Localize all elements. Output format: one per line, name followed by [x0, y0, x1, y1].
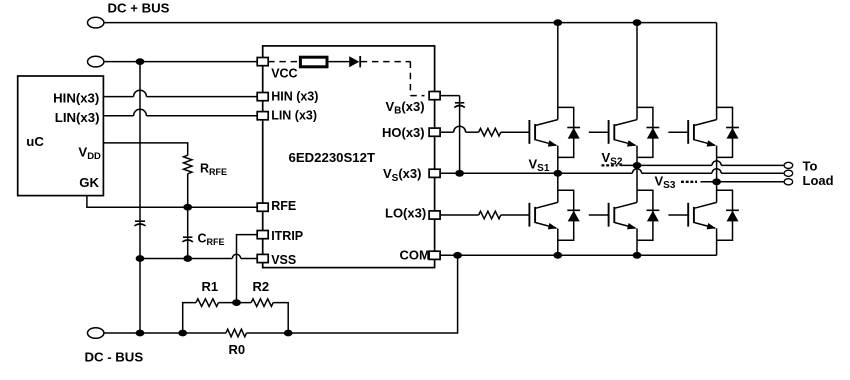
pin HO	[429, 128, 440, 136]
label VSS pin	[271, 253, 296, 267]
svg-text:COM: COM	[400, 247, 430, 262]
label RRFE	[200, 162, 227, 178]
wire HIN uC to IC	[103, 96, 257, 98]
label DC + BUS	[108, 1, 170, 16]
label COM pin	[400, 247, 430, 262]
resistor HO gate	[479, 128, 501, 136]
wire VS3 line	[701, 181, 785, 183]
resistor R2	[251, 299, 273, 307]
diode bootstrap	[349, 56, 360, 67]
gate driver IC 6ED2230S12T block	[263, 46, 435, 268]
terminal load phase2	[784, 162, 793, 168]
wire VSS	[140, 258, 257, 260]
label R0	[229, 342, 246, 357]
wire COM rail	[440, 254, 716, 256]
wire diode dashed to VB corner	[361, 61, 411, 63]
svg-text:LIN (x3): LIN (x3)	[271, 109, 317, 123]
wire gate stub T2	[589, 131, 609, 133]
terminal DC + BUS	[88, 17, 104, 28]
hop HO over bootstrap cap line	[454, 126, 466, 132]
svg-text:ITRIP: ITRIP	[271, 229, 303, 243]
label LIN (x3) pin	[271, 109, 317, 123]
junction VS / bootstrap cap	[455, 170, 464, 177]
label Load	[803, 173, 834, 188]
hop VS2 over phase3 column	[712, 161, 721, 166]
hop HIN over left vertical	[134, 90, 147, 96]
microcontroller uC block	[18, 76, 104, 196]
transistor T1 high-side phase1 with diode	[529, 23, 580, 174]
wire LO	[440, 214, 479, 216]
label GK uC	[79, 175, 99, 190]
transistor T6 low-side phase3 with diode	[688, 182, 739, 256]
wire R1-R2 centre	[219, 302, 252, 304]
wire VDD	[103, 143, 187, 155]
pin VCC	[257, 58, 268, 66]
junction DC- / R2 lead	[284, 330, 293, 337]
junction VS2 phase2 emitter	[633, 162, 642, 169]
label VS3	[655, 173, 676, 191]
svg-text:VB(x3): VB(x3)	[386, 99, 425, 117]
transistor T5 low-side phase2 with diode	[609, 165, 660, 255]
pin HIN	[257, 93, 268, 101]
svg-text:DC - BUS: DC - BUS	[85, 350, 144, 365]
wire gate stub T5	[589, 214, 609, 216]
wire HO	[440, 131, 479, 133]
wire VS3 dashes	[681, 181, 697, 183]
junction VCC row / left vertical	[136, 58, 145, 65]
pin ITRIP	[257, 231, 268, 239]
wire R1 left lead	[183, 303, 196, 333]
wire DC- bus rail right	[247, 255, 458, 333]
label VDD uC	[78, 145, 101, 163]
junction COM / DC- return	[453, 252, 462, 259]
label R1	[202, 279, 219, 294]
svg-text:HIN(x3): HIN(x3)	[53, 90, 99, 105]
wire GK to RFE pin	[87, 196, 257, 208]
junction VSS / CRFE	[183, 255, 192, 262]
hop VS1 over phase2 column	[632, 169, 641, 174]
label uC	[26, 134, 44, 149]
junction DC- / left vertical	[136, 330, 145, 337]
resistor RRFE	[184, 155, 192, 174]
wire VS2 line	[620, 164, 785, 166]
wire gate stub T3	[668, 131, 688, 133]
label DC - BUS	[85, 350, 144, 365]
label RFE pin	[271, 199, 296, 213]
label VS1	[529, 156, 550, 174]
terminal load phase1	[784, 170, 793, 176]
svg-text:6ED2230S12T: 6ED2230S12T	[289, 150, 376, 165]
wire LO to gate	[501, 214, 530, 216]
junction VS3 phase3 emitter	[712, 178, 721, 185]
wire bootstrap cap branch	[459, 96, 461, 174]
wire left vertical	[139, 62, 141, 333]
pin RFE	[257, 203, 268, 211]
svg-text:VS(x3): VS(x3)	[383, 166, 421, 184]
label HO(x3) pin	[382, 125, 425, 140]
junction DC+ phase2	[633, 19, 642, 26]
wire gate stub T6	[668, 214, 688, 216]
svg-text:uC: uC	[26, 134, 44, 149]
wire VB to cap	[440, 95, 460, 97]
label HIN (x3) pin	[271, 89, 318, 103]
junction COM phase2	[633, 252, 642, 259]
transistor T2 high-side phase2 with diode	[609, 23, 660, 166]
svg-text:RFE: RFE	[271, 199, 296, 213]
svg-text:R0: R0	[229, 342, 246, 357]
label HIN(x3) uC	[53, 90, 99, 105]
wire DC+ bus rail	[104, 22, 716, 24]
wire block to diode	[327, 61, 350, 63]
terminal DC - BUS	[88, 328, 104, 339]
hop VSS over ITRIP vertical	[232, 254, 240, 258]
svg-text:GK: GK	[79, 175, 99, 190]
wire HO to gate	[501, 131, 530, 133]
hop VS1 over phase3 column	[712, 169, 721, 174]
wire VCC supply row	[104, 61, 257, 63]
transistor T4 low-side phase1 with diode	[529, 173, 580, 255]
resistor R1	[196, 299, 219, 307]
label To	[803, 158, 818, 173]
junction DC- / R1 lead	[178, 330, 187, 337]
svg-text:To: To	[803, 158, 818, 173]
junction VSS / left vertical	[136, 255, 145, 262]
svg-text:VCC: VCC	[271, 67, 297, 81]
hop LIN over left vertical	[134, 109, 147, 115]
svg-text:R2: R2	[253, 279, 270, 294]
junction COM phase1	[553, 252, 562, 259]
svg-text:R1: R1	[202, 279, 219, 294]
svg-text:VSS: VSS	[271, 253, 296, 267]
wire VS1 line	[460, 172, 784, 174]
wire ITRIP	[237, 235, 258, 303]
pin LO	[429, 211, 440, 219]
wire LIN uC to IC	[103, 115, 257, 117]
svg-text:HIN (x3): HIN (x3)	[271, 89, 318, 103]
pin LIN	[257, 112, 268, 120]
label ITRIP pin	[271, 229, 303, 243]
junction R1-R2 / ITRIP	[232, 299, 241, 306]
resistor LO gate	[479, 211, 501, 219]
wire CRFE branch	[187, 207, 189, 258]
pin VB	[429, 92, 440, 100]
pin VS	[429, 169, 440, 177]
wire RRFE to RFE node	[187, 174, 189, 207]
terminal VCC supply	[88, 56, 104, 67]
label LIN(x3) uC	[55, 110, 100, 125]
capacitor decoupling	[134, 221, 145, 226]
label R2	[253, 279, 270, 294]
junction DC+ phase1	[553, 19, 562, 26]
capacitor bootstrap	[454, 103, 465, 108]
label CRFE	[198, 232, 225, 248]
wire R2 right lead	[273, 303, 288, 333]
pin VSS	[257, 254, 268, 262]
wire VS2 dashes	[602, 164, 618, 166]
label 6ED2230S12T	[289, 150, 376, 165]
resistor bootstrap block	[300, 57, 327, 67]
label VS2	[602, 150, 623, 168]
junction VS1 phase1 emitter	[553, 170, 562, 177]
pin COM	[429, 251, 440, 259]
junction RFE node	[183, 204, 192, 211]
svg-text:HO(x3): HO(x3)	[382, 125, 425, 140]
wire VCC dashed internal	[268, 61, 300, 63]
resistor R0	[226, 329, 247, 337]
label VCC pin	[271, 67, 297, 81]
svg-text:DC + BUS: DC + BUS	[108, 1, 170, 16]
wire DC- bus rail left	[104, 332, 226, 334]
svg-text:Load: Load	[803, 173, 834, 188]
label VB(x3) pin	[386, 99, 425, 117]
wire dashed to VB pin	[410, 95, 424, 97]
wire VS pin	[440, 172, 460, 174]
label LO(x3) pin	[385, 205, 426, 220]
transistor T3 high-side phase3 with diode	[688, 23, 739, 182]
terminal load phase3	[784, 179, 793, 185]
svg-text:LO(x3): LO(x3)	[385, 205, 426, 220]
label VS(x3) pin	[383, 166, 421, 184]
capacitor CRFE	[182, 237, 193, 242]
svg-text:LIN(x3): LIN(x3)	[55, 110, 100, 125]
wire dashed vertical	[409, 62, 411, 96]
